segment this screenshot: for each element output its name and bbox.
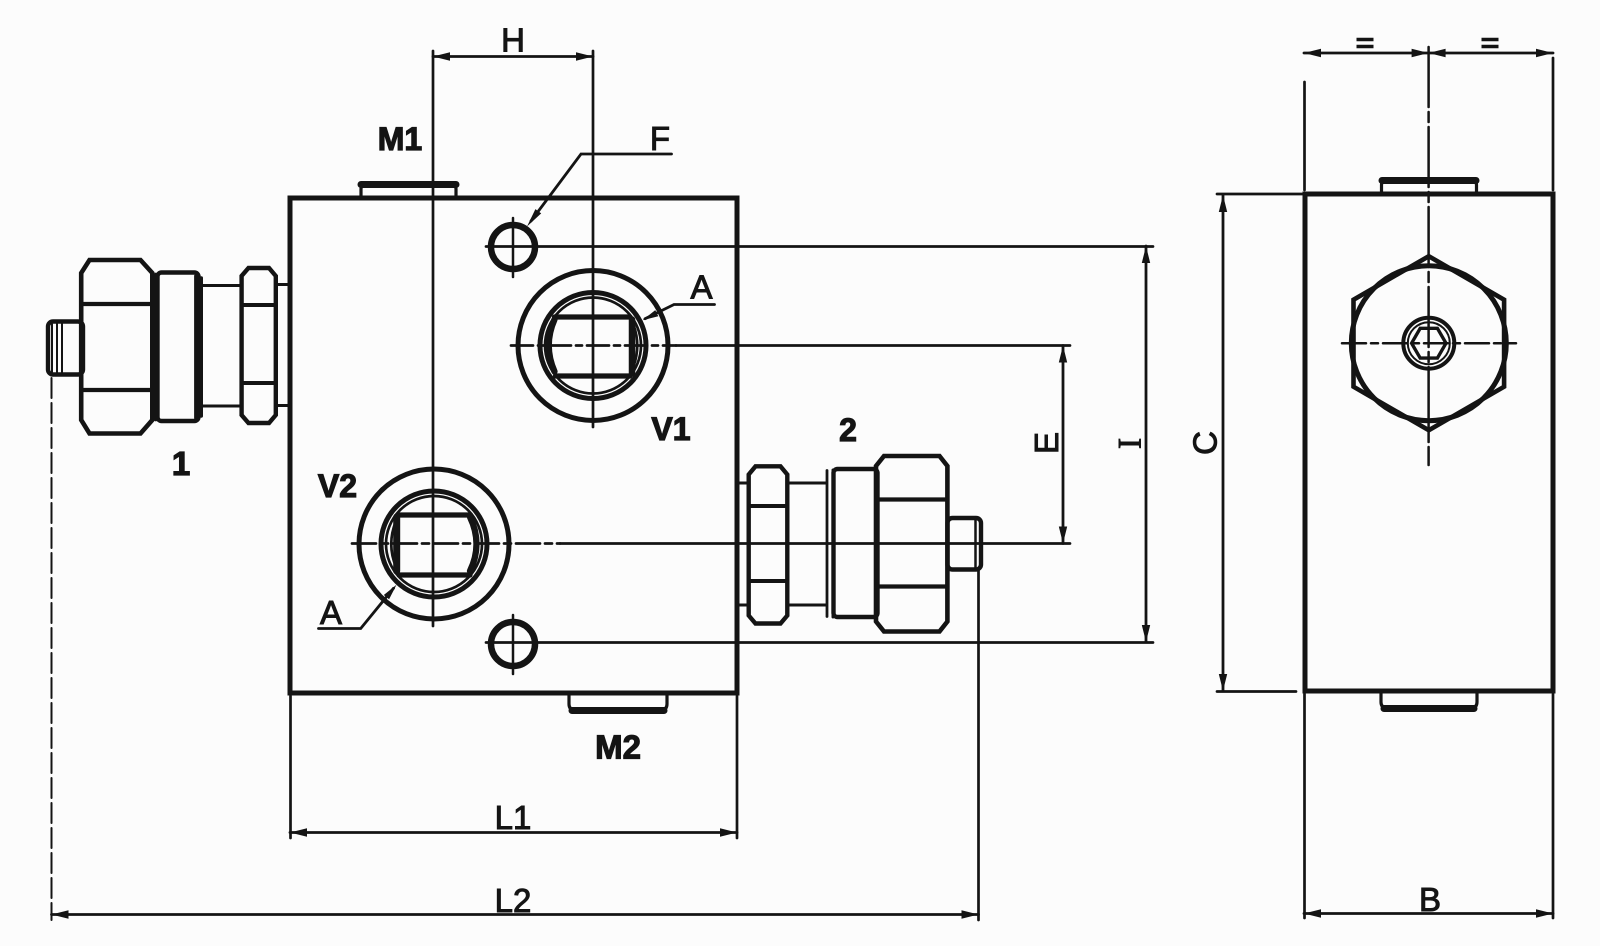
svg-text:F: F	[650, 120, 670, 157]
side view block	[1305, 194, 1553, 691]
bottom hole tie line to I dimension	[486, 641, 1153, 644]
dimension C bottom extension tick	[1217, 690, 1296, 693]
port V1 square socket right bar	[629, 320, 636, 374]
arrowhead I up	[1142, 246, 1150, 263]
dimension B right extension	[1552, 694, 1555, 918]
dimension L2 right extension	[977, 570, 980, 920]
bottom hole crosshair vertical	[512, 615, 515, 674]
fitting 2 neck lines	[788, 482, 827, 485]
svg-text:M2: M2	[595, 729, 641, 766]
fitting 2 big hex face lines	[877, 497, 948, 501]
arrowhead leader F	[527, 209, 541, 226]
port V2 square socket left bar	[393, 517, 400, 571]
svg-text:E: E	[1028, 432, 1065, 454]
fitting 2 big hex nut	[876, 456, 947, 632]
equal symbol left	[1357, 40, 1374, 47]
arrowhead L2 right	[962, 910, 979, 918]
port V2 square socket bottom bar	[399, 572, 470, 577]
port M2 boss	[569, 693, 667, 710]
F circle crosshair vertical	[512, 218, 515, 277]
port V1 square socket top bar	[555, 314, 631, 319]
port V1 horizontal centerline	[511, 344, 676, 347]
fitting 1 small hex face lines	[242, 303, 276, 307]
main block front view	[290, 198, 737, 693]
fitting 1 big hex face lines	[82, 302, 152, 306]
fitting 2 threaded stub	[948, 518, 982, 570]
dimension L2 line	[52, 913, 979, 916]
port V2 square socket top bar	[399, 512, 470, 517]
hex plug horizontal centerline	[1342, 342, 1516, 345]
svg-text:L2: L2	[495, 882, 532, 919]
dimension L1 line	[290, 831, 737, 834]
port V1 vertical centerline / H extension	[592, 51, 595, 427]
fitting 2 stub thread line	[974, 520, 977, 568]
fitting 1 connection lines to block	[276, 283, 290, 286]
leader line F	[531, 154, 672, 221]
fitting 1 body cylinder	[158, 273, 199, 422]
V1 tie line to E dimension	[676, 344, 1070, 347]
dimension L1 right extension	[736, 696, 739, 838]
arrowhead I down	[1142, 625, 1150, 642]
arrowhead equal left end	[1304, 49, 1321, 57]
leader line A lower	[319, 588, 394, 628]
port V2 left thin bore arc	[391, 521, 396, 567]
F circle tie line to I dimension	[486, 245, 1153, 248]
svg-text:A: A	[320, 594, 342, 631]
svg-text:L1: L1	[495, 799, 532, 836]
arrowhead B left	[1304, 909, 1321, 917]
fitting 1 body right edge double line	[194, 276, 197, 418]
dimension C line	[1222, 195, 1225, 691]
svg-text:M1: M1	[378, 121, 422, 157]
dimension H line	[433, 55, 593, 58]
svg-text:H: H	[501, 22, 525, 59]
dimension C top extension tick	[1217, 193, 1303, 196]
fitting 2 washer lines	[826, 471, 829, 617]
bottom hole circle	[491, 622, 535, 666]
hex plug hexagon	[1354, 256, 1505, 430]
hex plug chamfer circle	[1351, 266, 1506, 421]
fitting 2 small hex face lines	[749, 504, 787, 508]
port V2 vertical centerline / H extension	[432, 51, 435, 626]
arrowhead equal right end	[1536, 49, 1553, 57]
dimension B left extension	[1303, 694, 1306, 918]
equal symbol right	[1482, 40, 1499, 47]
fitting 2 body cylinder	[834, 469, 878, 617]
svg-text:V1: V1	[651, 411, 690, 447]
fitting 1 big hex nut	[81, 260, 152, 434]
dimension B line	[1304, 912, 1553, 915]
arrowhead E down	[1059, 527, 1067, 544]
hex plug socket hexagon	[1412, 328, 1446, 358]
dimension L2 left extension	[51, 378, 53, 920]
arrowhead C down	[1219, 674, 1227, 691]
svg-text:V2: V2	[318, 468, 357, 504]
equal-split dimension line	[1304, 52, 1553, 55]
arrowhead L2 left	[52, 910, 69, 918]
port M1 boss	[361, 185, 456, 199]
arrowhead B right	[1536, 909, 1553, 917]
fitting 1 neck bottom line	[199, 405, 242, 408]
fitting 1 washer line	[154, 274, 157, 420]
port V1 square socket left bore arc	[549, 320, 555, 372]
arrowhead equal center left-pointing	[1429, 49, 1446, 57]
port V2 outer circle	[359, 469, 509, 619]
dimension L1 left extension	[289, 696, 292, 838]
fitting 1 small hex nut	[242, 268, 276, 423]
arrowhead C up	[1219, 195, 1227, 212]
port V1 right thin bore arc	[632, 321, 637, 370]
arrowhead E up	[1059, 346, 1067, 363]
arrowhead leader A upper	[643, 310, 659, 320]
dimension E line	[1062, 346, 1065, 544]
equal-split right extension line	[1552, 58, 1555, 190]
port V1 outer circle	[518, 271, 668, 421]
dimension I line	[1145, 246, 1148, 642]
drain hole F circle	[491, 225, 535, 269]
svg-text:C: C	[1186, 431, 1223, 455]
svg-text:B: B	[1419, 881, 1441, 918]
arrowhead leader A lower	[384, 585, 397, 600]
arrowhead H right	[576, 52, 593, 60]
arrowhead L1 right	[720, 828, 737, 836]
hex plug inner circles	[1403, 318, 1454, 369]
side view top boss	[1382, 181, 1477, 195]
arrowhead equal center right-pointing	[1412, 49, 1429, 57]
svg-text:1: 1	[172, 445, 190, 482]
port V1 square socket bottom bar	[556, 373, 631, 378]
V2 tie line to E dimension (through fitting 2)	[352, 542, 560, 545]
side view vertical centerline	[1427, 47, 1430, 465]
arrowhead L1 left	[290, 828, 307, 836]
arrowhead H left	[433, 52, 450, 60]
side view bottom boss	[1381, 691, 1477, 708]
port V2 square socket right bore arc	[470, 517, 477, 571]
fitting 1 neck top line	[199, 284, 242, 287]
fitting 1 threaded stub	[48, 322, 83, 375]
leader line A upper	[645, 305, 715, 319]
equal-split left extension line	[1303, 82, 1306, 190]
fitting 2 small hex nut	[749, 466, 788, 623]
svg-text:I: I	[1113, 438, 1149, 449]
port V1 ring	[540, 293, 646, 399]
port V2 ring	[381, 491, 487, 597]
fitting 2 connection lines to block	[737, 482, 749, 485]
svg-text:2: 2	[839, 412, 857, 448]
fitting 1 thread shading	[51, 324, 53, 372]
svg-text:A: A	[690, 269, 712, 306]
